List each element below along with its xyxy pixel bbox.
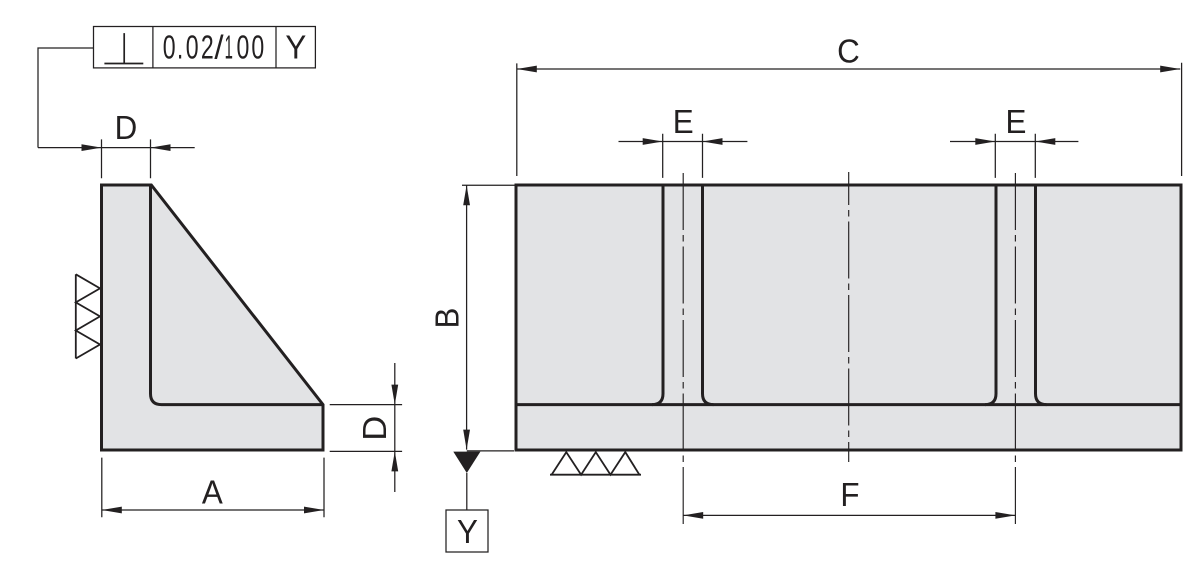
slot 1 centerline <box>682 173 684 524</box>
svg-text:0: 0 <box>163 30 176 67</box>
dimension D (right) arrow bottom <box>391 451 398 471</box>
dimension B line <box>466 185 468 449</box>
dimension D (top) extension lines <box>102 139 151 178</box>
label F <box>840 476 859 513</box>
dimension A extension lines <box>102 458 324 518</box>
dimension B arrow top <box>463 185 470 205</box>
dimension B arrow bottom <box>463 430 470 450</box>
dimension E1 extension lines <box>663 134 703 178</box>
datum attach line <box>467 450 514 452</box>
slot 2 centerline <box>1014 173 1016 524</box>
dimension E2 arrow left <box>975 138 995 145</box>
dimension D (right) line <box>394 363 396 492</box>
label D (right, rotated) <box>357 416 394 441</box>
slot 2 right edge with fillet <box>1036 186 1047 405</box>
dimension A line <box>102 509 324 511</box>
slot 2 left edge with fillet <box>985 186 996 405</box>
leader line from frame to D dimension <box>38 48 94 148</box>
right view: plate rectangle <box>516 185 1181 450</box>
right view: base top edge line <box>516 403 1181 406</box>
label A <box>202 474 223 511</box>
left view: angle plate silhouette <box>102 185 324 450</box>
dimension A arrow right <box>304 507 324 514</box>
datum Y stem <box>466 473 468 510</box>
svg-text:E: E <box>673 103 694 140</box>
svg-text:Y: Y <box>457 513 478 550</box>
feature control frame box <box>94 27 316 68</box>
right view support triangles zigzag <box>552 452 640 475</box>
dimension E1 arrow right <box>703 138 723 145</box>
svg-text:A: A <box>202 474 223 511</box>
dimension A arrow left <box>102 507 122 514</box>
dimension E2 extension lines <box>995 134 1035 178</box>
dimension D (right) arrow top <box>391 385 398 405</box>
dimension D (right) extension lines <box>330 405 402 452</box>
dimension E1 line <box>619 141 748 143</box>
right view support triangles baseline <box>550 474 641 476</box>
dimension C arrow left <box>517 66 537 73</box>
left view: inner edge with fillet <box>151 185 323 405</box>
dimension E2 arrow right <box>1035 138 1055 145</box>
dimension E2 line <box>950 141 1078 143</box>
middle centerline <box>848 172 850 462</box>
svg-text:C: C <box>837 33 860 70</box>
svg-text:D: D <box>115 109 138 146</box>
slot 1 left edge with fillet <box>652 186 663 405</box>
svg-text:1: 1 <box>225 30 233 66</box>
svg-text:0: 0 <box>186 30 199 67</box>
svg-text:F: F <box>840 476 859 513</box>
label C <box>837 33 860 70</box>
label E1 <box>673 103 694 140</box>
dimension C arrow right <box>1160 66 1180 73</box>
dimension E1 arrow left <box>643 138 663 145</box>
label B (rotated) <box>429 308 466 329</box>
label D (top) <box>115 109 138 146</box>
svg-text:Y: Y <box>285 29 306 66</box>
datum Y letter <box>457 513 478 550</box>
datum Y box <box>446 510 488 552</box>
dimension F arrow right <box>995 512 1015 519</box>
tolerance text 0.02/100 <box>163 30 176 67</box>
datum letter Y in frame <box>285 29 306 66</box>
dimension F arrow left <box>683 512 703 519</box>
left view: machined-surface support triangles <box>76 274 100 358</box>
dimension C extension lines <box>517 63 1182 176</box>
dimension F line <box>683 514 1015 516</box>
svg-text:.: . <box>177 30 183 67</box>
svg-text:D: D <box>357 416 394 441</box>
datum Y filled triangle <box>453 452 480 473</box>
perpendicularity symbol <box>104 33 143 63</box>
slot 1 right edge with fillet <box>703 186 714 405</box>
svg-text:B: B <box>429 308 466 329</box>
dimension D (top) arrow left <box>82 144 102 151</box>
svg-text:0: 0 <box>251 30 264 67</box>
dimension D (top) arrow right <box>151 144 171 151</box>
svg-text:0: 0 <box>236 30 249 67</box>
dimension C line <box>517 68 1180 70</box>
dimension D (top) line <box>38 147 195 149</box>
dimension B extension line top <box>462 184 515 186</box>
svg-text:/: / <box>214 29 224 66</box>
svg-text:E: E <box>1005 103 1026 140</box>
svg-text:2: 2 <box>201 30 214 67</box>
label E2 <box>1005 103 1026 140</box>
